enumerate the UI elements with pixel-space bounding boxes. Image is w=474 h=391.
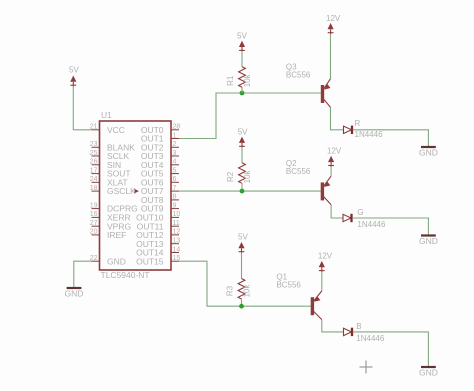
- wire 5V to R2: [241, 147, 243, 163]
- U1 pin 5 (OUT5) stub: [141, 167, 179, 178]
- svg-text:12V: 12V: [327, 147, 342, 156]
- U1 pin 12 (OUT12) stub: [136, 229, 180, 240]
- svg-text:5: 5: [173, 167, 177, 174]
- U1 pin 20 (IREF) stub: [90, 229, 127, 240]
- transistor Q2 BC556: [321, 176, 331, 205]
- svg-text:GND: GND: [419, 236, 438, 246]
- IC U1 TLC5940-NT body: [100, 110, 172, 270]
- svg-text:19: 19: [90, 202, 98, 209]
- U1 pin 16 (XERR) stub: [90, 211, 131, 222]
- U1 GSCLK clock mark: [135, 189, 139, 193]
- node junction R3/base net: [239, 304, 244, 309]
- U1 pin 24 (XLAT) stub: [90, 176, 128, 187]
- svg-text:16: 16: [90, 211, 98, 218]
- wire R2 to junction: [241, 183, 243, 191]
- wire diode B to ground: [353, 332, 429, 366]
- svg-text:26: 26: [90, 159, 98, 166]
- U1 pin 2 (OUT2) stub: [141, 141, 179, 152]
- svg-text:B: B: [356, 322, 361, 331]
- label Q2 BC556: [286, 159, 311, 176]
- diode R 1N4446: [344, 119, 384, 139]
- svg-text:12V: 12V: [326, 14, 341, 23]
- svg-text:R: R: [355, 119, 361, 128]
- supply +5V (R2): [238, 128, 248, 148]
- U1 pin 9 (OUT9) stub: [141, 202, 179, 213]
- U1 pin 28 (OUT0) stub: [141, 124, 181, 135]
- U1 pin 15 (OUT15) stub: [136, 255, 180, 266]
- ground GND (middle): [419, 236, 438, 247]
- svg-text:1N4446: 1N4446: [356, 334, 385, 343]
- node junction R1/base net: [240, 91, 245, 96]
- supply +5V (R3): [238, 233, 248, 254]
- supply +12V (Q2): [327, 147, 342, 167]
- svg-text:11: 11: [173, 220, 180, 227]
- svg-text:21: 21: [90, 124, 98, 131]
- svg-text:12V: 12V: [318, 252, 333, 261]
- svg-text:GND: GND: [65, 289, 84, 299]
- svg-text:OUT15: OUT15: [136, 256, 164, 266]
- resistor R2 10k: [226, 163, 252, 184]
- svg-text:BC556: BC556: [286, 70, 311, 79]
- svg-text:10k: 10k: [242, 284, 251, 298]
- origin cross: [360, 361, 373, 374]
- svg-text:20: 20: [90, 229, 98, 236]
- svg-text:GND: GND: [419, 148, 438, 158]
- svg-text:25: 25: [90, 150, 98, 157]
- wire net OUT1 to Q3 base: [179, 93, 321, 139]
- svg-text:24: 24: [90, 176, 98, 183]
- svg-text:13: 13: [173, 238, 181, 245]
- U1 pin 21 (VCC) stub: [90, 124, 125, 135]
- svg-text:BC556: BC556: [286, 167, 311, 176]
- wire R1 to junction: [241, 87, 243, 93]
- U1 pin 17 (SOUT) stub: [90, 167, 131, 178]
- resistor R3 10k: [226, 279, 252, 300]
- transistor Q1 BC556: [311, 291, 322, 320]
- U1 pin 4 (OUT4) stub: [141, 159, 179, 170]
- ground GND (U1): [65, 288, 84, 299]
- svg-text:5V: 5V: [237, 32, 247, 41]
- svg-text:7: 7: [173, 185, 177, 192]
- svg-text:5V: 5V: [238, 233, 248, 242]
- svg-text:5V: 5V: [238, 128, 248, 137]
- svg-text:R1: R1: [226, 75, 235, 86]
- wire diode G to ground: [352, 218, 428, 235]
- wire Q3 emitter to 12V: [330, 34, 332, 79]
- node junction R2/base net: [240, 189, 245, 194]
- U1 pin 18 (GSCLK) stub: [90, 185, 136, 196]
- svg-text:TLC5940-NT: TLC5940-NT: [101, 270, 150, 280]
- wire U1 GND pin to ground: [74, 261, 92, 287]
- U1 pin 27 (VPRG) stub: [90, 220, 131, 231]
- U1 pin 8 (OUT8) stub: [141, 194, 179, 205]
- svg-text:10k: 10k: [243, 169, 252, 183]
- diode G 1N4446: [343, 208, 386, 229]
- U1 pin 26 (SIN) stub: [90, 159, 121, 170]
- wire 5V to R3: [241, 252, 243, 278]
- ground GND (bottom): [419, 367, 438, 378]
- svg-text:GND: GND: [419, 368, 438, 378]
- transistor Q3 BC556: [321, 79, 331, 108]
- U1 pin 6 (OUT6) stub: [141, 176, 179, 187]
- svg-text:23: 23: [90, 141, 98, 148]
- U1 pin 13 (OUT13) stub: [136, 238, 180, 249]
- wire net OUT7 to Q2 base: [179, 190, 321, 192]
- label Q3 BC556: [286, 63, 311, 80]
- U1 pin 3 (OUT3) stub: [141, 150, 179, 161]
- svg-text:8: 8: [173, 194, 177, 201]
- supply +12V (Q3): [326, 14, 341, 34]
- svg-text:1N4446: 1N4446: [355, 130, 384, 139]
- wire net OUT15 to Q1 base: [179, 261, 311, 306]
- svg-text:27: 27: [90, 220, 98, 227]
- U1 pin 19 (DCPRG) stub: [90, 202, 138, 213]
- U1 pin 1 (OUT1) stub: [141, 132, 179, 143]
- svg-text:GSCLK: GSCLK: [107, 186, 136, 196]
- wire Q1 emitter to 12V: [321, 272, 323, 291]
- supply +5V (R1): [237, 32, 247, 52]
- U1 pin 7 (OUT7) stub: [141, 185, 179, 196]
- wire Q3 collector to diode R: [331, 107, 344, 129]
- svg-text:18: 18: [90, 185, 98, 192]
- U1 pin 14 (OUT14) stub: [136, 246, 180, 257]
- svg-text:U1: U1: [101, 110, 112, 120]
- svg-text:17: 17: [90, 167, 98, 174]
- svg-text:5V: 5V: [69, 66, 79, 75]
- svg-text:28: 28: [173, 124, 181, 131]
- svg-text:R2: R2: [226, 171, 235, 182]
- svg-text:GND: GND: [107, 256, 126, 266]
- wire R3 to junction: [241, 299, 243, 306]
- U1 pin 22 (GND) stub: [90, 255, 126, 266]
- wire Q1 collector to diode B: [322, 320, 344, 332]
- resistor R1 10k: [226, 67, 252, 88]
- svg-text:1: 1: [173, 132, 177, 139]
- svg-text:1N4446: 1N4446: [357, 220, 386, 229]
- svg-text:6: 6: [173, 176, 177, 183]
- wire 5V to R1: [241, 51, 243, 67]
- svg-text:4: 4: [173, 159, 177, 166]
- svg-text:10: 10: [173, 211, 181, 218]
- wire 5V to U1 VCC: [73, 86, 91, 130]
- svg-text:BC556: BC556: [276, 280, 301, 289]
- svg-text:12: 12: [173, 229, 181, 236]
- svg-text:10k: 10k: [243, 73, 252, 87]
- wire Q2 collector to diode G: [331, 205, 343, 218]
- U1 pin 23 (BLANK) stub: [90, 141, 136, 152]
- svg-text:14: 14: [173, 246, 181, 253]
- wire diode R to ground: [353, 130, 429, 146]
- svg-text:IREF: IREF: [107, 230, 126, 240]
- U1 pin 10 (OUT10) stub: [136, 211, 180, 222]
- U1 pin 25 (SCLK) stub: [90, 150, 130, 161]
- supply +12V (Q1): [318, 252, 333, 272]
- svg-text:VCC: VCC: [107, 125, 125, 135]
- ground GND (top): [419, 147, 438, 158]
- svg-text:2: 2: [173, 141, 177, 148]
- svg-text:R3: R3: [226, 285, 235, 296]
- wire Q2 emitter to 12V: [330, 167, 332, 176]
- label Q1 BC556: [276, 273, 301, 290]
- svg-text:G: G: [357, 208, 363, 217]
- U1 pin 11 (OUT11) stub: [137, 220, 180, 231]
- supply +5V (U1): [69, 66, 79, 87]
- svg-text:3: 3: [173, 150, 177, 157]
- diode B 1N4446: [344, 322, 385, 343]
- svg-text:9: 9: [173, 202, 177, 209]
